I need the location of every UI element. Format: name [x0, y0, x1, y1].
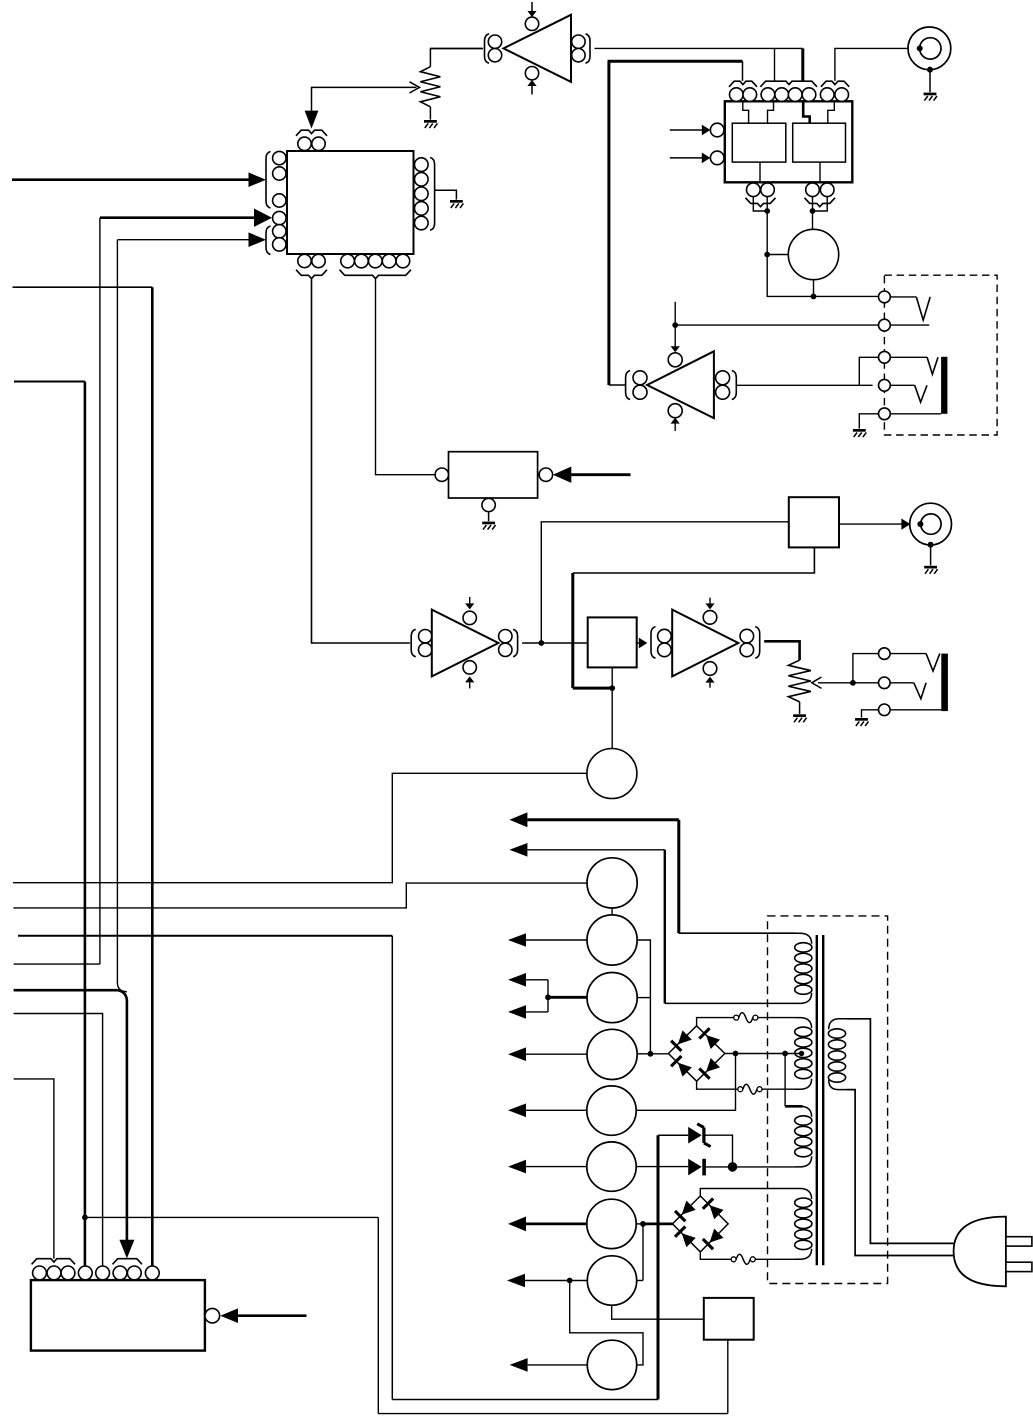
speaker SP2 — [587, 749, 637, 799]
ground below J2 — [924, 566, 937, 574]
arrow into U2 pin 2 — [670, 153, 711, 164]
U1 left pin group bracket — [266, 152, 271, 209]
supply arrow row 3 — [508, 933, 587, 947]
U2 left input pin 2 — [710, 151, 724, 165]
wire U2 pair1 join — [753, 197, 878, 297]
regulator circle P1 — [587, 858, 637, 908]
supply arrow row 7 — [508, 1160, 587, 1174]
A2 top control pin — [668, 353, 682, 367]
A2 control wire with junction — [671, 302, 680, 352]
op-amp A4 input bracket — [651, 627, 656, 659]
IC U1 main LSI body — [287, 151, 414, 254]
op-amp A1 output bracket — [485, 34, 490, 63]
U3 bottom pin — [482, 498, 495, 511]
thermistor TH1 body — [704, 1298, 754, 1340]
wire VR1 to A1 output bracket — [430, 48, 483, 50]
wire P8 riser to P7 node — [642, 1224, 644, 1281]
wire contact3 to sleeve — [890, 709, 941, 711]
regulator circle P8 — [587, 1256, 636, 1305]
regulator circle P7 — [587, 1199, 636, 1248]
U2 inner relay block 1 — [732, 123, 786, 162]
op-amp A2 output pins — [633, 371, 647, 399]
potentiometer VR1 — [410, 49, 483, 120]
wire off-page to connector arrow (thick) — [14, 983, 127, 1241]
fuse F2 — [738, 1084, 762, 1094]
wire P9 to P8 node — [570, 1281, 643, 1365]
wire keyboard connector bus to U1 area — [13, 287, 153, 1266]
U2 bottom pins pair 2 — [806, 183, 834, 197]
jack switch V3 — [890, 385, 927, 402]
U2 relay2 bottom lead — [819, 162, 821, 182]
A3 top control arrow — [465, 597, 474, 609]
ground below jack box — [853, 429, 866, 437]
wire thick drop to U2 bracket b2 — [801, 48, 804, 81]
wire FL2 bottom to speaker SP2 — [611, 667, 613, 748]
op-amp A3 output bracket — [513, 629, 518, 657]
wire A3 node to filter FL1 — [541, 522, 789, 643]
U2 top pins — [730, 88, 849, 102]
op-amp A2 output bracket — [626, 371, 631, 400]
A4 bottom control arrow — [705, 677, 714, 688]
wire tap node to winding W3 top — [785, 1054, 802, 1107]
wire U1 right bracket to ground — [435, 190, 457, 199]
RCA jack J2 — [910, 503, 952, 548]
U1 left pin 4 — [273, 211, 286, 224]
wire U2 bracket b3 to RCA jack J1 — [835, 48, 917, 81]
RCA jack J1 — [908, 27, 951, 73]
U1 top pins — [298, 137, 325, 150]
phones2 sleeve bar — [941, 654, 948, 712]
fuse F1 — [734, 1013, 758, 1023]
wire P4 to bridge B1 minus — [637, 1051, 668, 1057]
U1 left pins 1-3 — [273, 151, 286, 207]
U2 bottom pins pair 1 — [747, 183, 775, 197]
op-amp A1 input pins — [572, 35, 585, 62]
A3 bottom control arrow — [465, 676, 474, 688]
U2 internal feed 3 (thick) — [803, 101, 810, 123]
wire contact5 to ground — [859, 414, 878, 429]
potentiometer VR2 — [788, 660, 810, 702]
op-amp A1 output pins — [488, 35, 501, 62]
filter FL1 body — [789, 497, 839, 547]
wire SP2 to off-page stub — [13, 773, 587, 882]
T1 primary winding — [828, 1019, 846, 1090]
op-amp A3 triangle — [432, 610, 499, 677]
wire signal input 2 to U1 (from off-page stub) — [14, 209, 272, 965]
A4 top control pin — [703, 611, 717, 625]
wire contact2 stub — [890, 324, 929, 326]
phones2 switch V1 — [890, 654, 940, 672]
keyboard connector J3 body — [31, 1280, 205, 1351]
speaker SP1 — [788, 229, 838, 279]
regulator circle P5 — [587, 1086, 636, 1135]
supply arrow row 9 — [507, 1274, 587, 1288]
wire B1 right to W2 center tap — [725, 1051, 804, 1057]
U3 right pin — [539, 468, 552, 481]
U1 top pin bracket — [296, 130, 327, 136]
wire off-page to connector pin5 — [14, 1014, 103, 1267]
U1 right pins — [415, 158, 429, 230]
wire U1 to U3 — [312, 278, 410, 644]
A2 bottom control pin — [668, 404, 682, 418]
ground right of U1 — [450, 200, 463, 208]
supply arrow row 6 — [508, 1104, 587, 1118]
wire A2 to phones contact 4 — [736, 384, 872, 386]
wire contact5 to sleeve — [890, 413, 941, 415]
wire A2 input — [609, 384, 626, 386]
wire signal input 1 to U1 — [12, 172, 266, 187]
op-amp A3 output pins — [499, 630, 512, 657]
T1 secondary winding W1 — [795, 933, 812, 1003]
wire P7 to bridge B2 — [636, 1221, 672, 1227]
wire off-page to zener D1 line — [18, 936, 658, 1400]
U2 bottom under-bracket 2 — [805, 198, 836, 207]
wire B2 bottom to fuse F3 — [700, 1252, 731, 1259]
supply arrow row 8 (thick) — [508, 1217, 587, 1232]
op-amp A2 input pins — [716, 371, 730, 399]
U2 power amp module body — [725, 101, 853, 182]
U1 right pin bracket — [430, 158, 435, 231]
wire F1 to winding W2 top — [757, 1017, 795, 1019]
arrow into connector bracket2 — [119, 1240, 134, 1259]
dashed transformer enclosure T1 — [768, 916, 888, 1284]
regulator circle P6 — [587, 1142, 636, 1191]
wire P1-P2 link — [611, 908, 613, 915]
wire primary to plug hot — [847, 1019, 954, 1244]
arrow into J3 side pin — [220, 1308, 306, 1323]
U2 internal feed 1 — [743, 101, 749, 123]
AC plug P1 — [954, 1217, 1032, 1287]
supply arrows row 4 pair — [508, 973, 587, 1019]
wire P2 to bridge node — [637, 940, 650, 1054]
dashed enclosure line-out/phones jacks — [884, 275, 997, 435]
supply arrow row 5 — [508, 1047, 587, 1061]
U2 bottom under-bracket 1 — [746, 198, 776, 207]
wire F2 to winding W2 bottom — [762, 1088, 796, 1090]
wire U2 b1 to headphone amp A2 input (thick L) — [608, 61, 743, 385]
jack switch V1 — [890, 297, 930, 320]
wire U2 pair2 join — [810, 197, 828, 230]
wire A3 output — [522, 640, 588, 646]
op-amp A4 input pins — [658, 629, 672, 656]
J3 pins — [33, 1266, 160, 1280]
jack contact 2 — [879, 319, 891, 331]
wire to speaker SP1 — [767, 254, 788, 256]
wire drop to U2 bracket b2 left — [774, 48, 776, 81]
ground below VR1 — [424, 120, 437, 128]
T1 secondary winding W2 — [795, 1018, 812, 1090]
arrow FL2 to A4 — [637, 638, 648, 649]
op-amp A4 output pins — [740, 629, 754, 656]
U2 left input pin 1 — [710, 123, 724, 137]
jack switch V2 — [890, 357, 938, 374]
bridge rectifier B1 — [668, 1026, 724, 1081]
wire off-page to connector bracket1 — [14, 1079, 54, 1259]
wire P8 bottom to thermistor TH1 — [612, 1305, 704, 1319]
wire A1 input from power-amp block — [595, 47, 803, 49]
regulator circle P3 — [587, 973, 637, 1023]
zener diode D1 — [658, 1124, 733, 1163]
wire F3 to winding W4 bottom — [755, 1258, 795, 1260]
arrow FL1 to RCA jack J2 — [839, 519, 910, 530]
VR2 wiper arrow — [812, 677, 879, 688]
wire B1 bottom to fuse F2 — [697, 1081, 739, 1089]
U2 top bracket b2 — [760, 81, 817, 87]
bridge rectifier B2 — [673, 1196, 729, 1252]
U2 relay1 bottom lead — [759, 162, 761, 182]
U1 bottom left under-bracket — [296, 270, 327, 279]
op-amp A2 triangle — [647, 351, 714, 418]
J3 over-bracket 1 — [32, 1259, 75, 1265]
wire P3 right stub — [637, 997, 650, 999]
ground below U3 — [482, 522, 495, 530]
regulator circle P9 — [587, 1340, 636, 1389]
A4 bottom control pin — [703, 662, 717, 676]
arrow into U3 — [553, 467, 631, 483]
T1 core — [817, 935, 823, 1265]
U1 bottom pins right group — [341, 254, 410, 268]
wire P5 to bridge B1 plus line — [636, 1054, 735, 1111]
A1 bottom control arrow — [527, 80, 536, 95]
A1 top control pin — [525, 17, 538, 30]
wire P6 to diode D2 — [636, 1166, 688, 1168]
U2 top bracket b3 — [821, 81, 849, 87]
T1 secondary winding W4 — [795, 1189, 812, 1260]
supply arrow A2 to winding W1 bottom — [509, 843, 795, 1003]
U1 left pin group bracket 2 — [266, 226, 271, 255]
U2 inner relay block 2 — [793, 123, 846, 162]
junction D1 D2 — [728, 1163, 736, 1171]
phones2 jack contact 2 — [879, 677, 891, 689]
U2 internal feed 2 — [768, 101, 774, 123]
junction speaker feed — [764, 252, 770, 258]
phones2 jack contact 3 — [879, 704, 891, 716]
op-amp A4 triangle — [672, 610, 738, 677]
op-amp A3 input pins — [419, 630, 432, 657]
A2 bottom control arrow — [671, 418, 680, 431]
wire B2 top to winding W4 top — [700, 1189, 795, 1196]
wire P8 right stub — [637, 1280, 643, 1282]
ground below J1 — [924, 93, 937, 101]
wire wiper branch to contact1 — [853, 654, 879, 683]
wire FL1 bottom to line amp feed — [573, 547, 815, 691]
jack contact 1 — [879, 291, 891, 303]
phones2 jack contact 1 — [879, 648, 891, 660]
supply arrow row 10 — [510, 1358, 588, 1372]
U2 top bracket b1 — [729, 81, 757, 87]
U1 bottom right under-bracket — [340, 270, 412, 279]
effect send block FL2 body — [588, 617, 637, 667]
wire U3 to ground — [488, 512, 490, 521]
fuse F3 — [731, 1254, 755, 1264]
wire off-page to connector pin4 net — [14, 382, 88, 1267]
regulator circle P2 — [587, 915, 637, 965]
T1 secondary winding W3 — [795, 1106, 812, 1167]
phones jack sleeve bar — [941, 357, 947, 414]
J3 over-bracket 2 — [113, 1259, 143, 1265]
jack contact 4 — [879, 379, 891, 391]
wire VR2 to ground — [799, 702, 801, 714]
A3 bottom control pin — [463, 661, 476, 674]
op-amp A3 input bracket — [411, 629, 416, 657]
wire SP1 to jack contact — [811, 280, 817, 300]
A3 top control pin — [463, 611, 476, 624]
ground below VR2 — [793, 714, 806, 722]
U1 left pins 5-6 — [273, 225, 286, 251]
U3 effect block body — [449, 452, 538, 498]
ground below phones2 — [855, 718, 868, 726]
A4 top control arrow — [705, 598, 714, 610]
op-amp A2 input bracket — [732, 371, 737, 400]
wire contact3 branch — [859, 357, 878, 385]
op-amp A1 triangle — [504, 15, 572, 82]
wire contact2 to A2 control node — [675, 324, 878, 326]
wire A4 to VR2 — [764, 641, 799, 660]
wire U1 to U3 input — [376, 278, 436, 475]
A1 bottom control pin — [525, 67, 538, 80]
U2 internal feed 4 — [828, 101, 835, 123]
arrow into U2 pin 1 — [670, 125, 711, 136]
phones2 switch V2 — [890, 683, 926, 699]
wire primary to plug neutral — [847, 1090, 954, 1256]
U1 bottom pins left pair — [298, 254, 325, 267]
wire contact3 to ground — [862, 710, 879, 718]
diode D2 — [688, 1159, 728, 1176]
wire B1 top to fuse F1 — [697, 1018, 735, 1026]
jack contact 3 — [879, 351, 891, 363]
wire J2 shell to ground — [930, 545, 932, 566]
A1 top control arrow — [527, 2, 536, 17]
supply arrow A1 to winding W1 top — [509, 812, 795, 933]
op-amp A4 output bracket — [755, 627, 760, 659]
U3 left pin — [435, 468, 448, 481]
jack contact 5 — [879, 408, 891, 420]
wire pot VR1 wiper to U1 top with arrow — [305, 87, 417, 128]
wire pin4 node to thermistor TH1 — [85, 1217, 728, 1413]
wire off-page to regulator P1 — [13, 883, 587, 908]
wire J1 shell to ground — [929, 70, 931, 93]
J3 side pin — [205, 1308, 220, 1323]
regulator circle P4 — [587, 1029, 637, 1079]
wire D junction to winding W3 bottom — [737, 1166, 795, 1168]
op-amp A1 input bracket — [586, 34, 591, 63]
wire signal input 3 to U1 (branch of keyboard-connector net) — [117, 232, 266, 983]
